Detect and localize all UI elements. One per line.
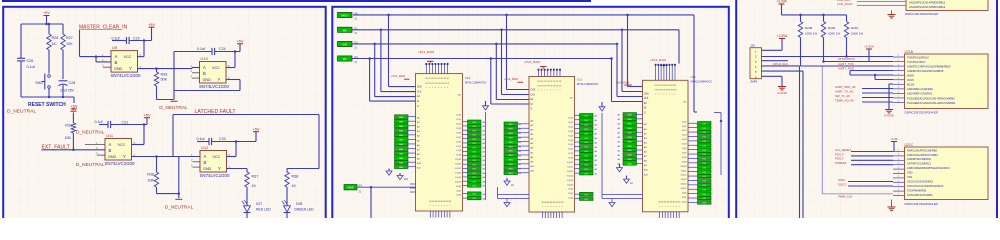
bus wire row 4 [352, 58, 612, 60]
svg-text:DQ8: DQ8 [457, 150, 462, 152]
svg-text:v: v [538, 90, 539, 92]
svg-text:v: v [672, 94, 673, 96]
svg-text:DQ12: DQ12 [681, 175, 687, 177]
svg-text:B: B [115, 60, 118, 65]
svg-text:U21B: U21B [905, 50, 914, 54]
svg-text:SW1: SW1 [35, 81, 43, 85]
svg-text:DQ11: DQ11 [455, 164, 461, 166]
svg-text:v: v [433, 205, 434, 207]
svg-text:AN0/VREF+/CN2/RA0: AN0/VREF+/CN2/RA0 [907, 87, 933, 91]
op-gate U10 SN74LVC1G00 [200, 62, 227, 84]
svg-text:DQ15: DQ15 [567, 184, 573, 186]
wire R208 to RB15 row [800, 38, 802, 67]
port MA1X (green) [338, 12, 353, 17]
svg-text:DQ2: DQ2 [457, 195, 462, 197]
wire port5 row [357, 186, 416, 188]
bus drop to U22 pin [626, 14, 629, 17]
svg-text:AN7/RP17/CN9/RC1: AN7/RP17/CN9/RC1 [907, 162, 932, 166]
svg-text:DQ10: DQ10 [455, 159, 461, 161]
svg-text:C31: C31 [122, 120, 129, 124]
svg-text:DQ7: DQ7 [457, 146, 462, 148]
svg-text:v: v [673, 206, 674, 208]
resistor R26 1K [48, 24, 50, 34]
wire U10 VCC riser [226, 67, 235, 69]
svg-text:DQ0: DQ0 [457, 186, 462, 188]
svg-text:DQ9: DQ9 [569, 158, 574, 160]
svg-text:DQ0: DQ0 [682, 193, 687, 195]
connector column left of U22 (green) [623, 113, 637, 117]
svg-text:D_NEUTRAL: D_NEUTRAL [76, 129, 105, 135]
svg-text:MCLR: MCLR [907, 83, 914, 87]
resistor R28 50K [156, 69, 158, 72]
svg-text:v: v [435, 87, 436, 89]
svg-text:v: v [661, 94, 662, 96]
LED D27 RED LED [244, 206, 251, 212]
connector column left of U19 (green) [395, 115, 409, 119]
bus drop to U21 pin [505, 14, 508, 17]
svg-text:MWE: MWE [348, 187, 354, 190]
svg-text:C24: C24 [219, 47, 226, 51]
wire right edge of panel 2 [714, 112, 721, 114]
svg-text:G: G [644, 113, 646, 115]
svg-text:100K 1%: 100K 1% [851, 32, 864, 36]
svg-text:v: v [541, 90, 542, 92]
svg-text:+5V: +5V [148, 23, 155, 27]
wire R209 to RB14 row [823, 38, 825, 62]
svg-text:R37: R37 [252, 175, 259, 179]
ground above U19 right column [485, 101, 487, 106]
svg-text:v: v [449, 205, 450, 207]
svg-text:AN8/CVREF/RP18/PMA2/CN10/RC2: AN8/CVREF/RP18/PMA2/CN10/RC2 [907, 166, 950, 170]
svg-text:U11: U11 [106, 133, 114, 138]
svg-text:Y: Y [218, 77, 221, 82]
svg-text:D27: D27 [256, 202, 262, 206]
DRAM U19 MT4LC16M4A7 [416, 74, 463, 211]
svg-text:DQ15: DQ15 [681, 188, 687, 190]
svg-text:CKE: CKE [417, 87, 422, 89]
svg-text:C28: C28 [69, 81, 76, 85]
wire U12.Y to R37 [227, 168, 248, 170]
svg-text:R27: R27 [66, 36, 73, 40]
op-gate U11 SN74LVC1G00 [105, 139, 132, 161]
power +5V for U12 [255, 132, 257, 142]
svg-text:v: v [669, 94, 670, 96]
svg-text:PWM_CLK: PWM_CLK [838, 195, 852, 199]
svg-text:DQ15: DQ15 [455, 181, 461, 183]
svg-text:DQ8: DQ8 [569, 153, 574, 155]
U21B pin stubs [893, 56, 905, 58]
svg-text:+5V: +5V [70, 107, 77, 111]
svg-text:MA: MA [343, 58, 347, 61]
svg-text:DQ13: DQ13 [681, 179, 687, 181]
wire U10.B stub [192, 72, 200, 74]
ground A-GND below AVSS [885, 109, 893, 111]
bus drop to U19 pin [387, 14, 390, 17]
wire port5 drop [370, 187, 372, 218]
resistor R36 10K [156, 157, 158, 173]
svg-text:CKE: CKE [644, 93, 649, 95]
svg-text:v: v [556, 90, 557, 92]
svg-text:A/SPI_SDO_A0: A/SPI_SDO_A0 [835, 85, 856, 89]
junction [155, 155, 158, 158]
svg-text:DQ9: DQ9 [457, 155, 462, 157]
svg-text:AN0/RTCC/RP14/CN12/PMWB/RB14: AN0/RTCC/RP14/CN12/PMWB/RB14 [907, 64, 951, 68]
wires U19 to right column [463, 121, 468, 123]
svg-text:v: v [665, 206, 666, 208]
svg-text:VDD: VDD [907, 171, 913, 175]
wire to U21A pin RB12 [857, 1, 906, 3]
svg-text:DQ4: DQ4 [457, 132, 462, 134]
ground below left column [388, 169, 390, 172]
svg-text:A: A [109, 142, 112, 147]
resistor R31 10K [71, 123, 75, 133]
ground A-GND below J19 [778, 86, 786, 88]
svg-text:v: v [550, 90, 551, 92]
svg-text:SOSCI/RP4/CN1/RB4: SOSCI/RP4/CN1/RB4 [907, 193, 933, 197]
wire J19.6 to A-GND [762, 75, 783, 77]
vertical wire x174 [173, 52, 175, 100]
svg-text:DQ10: DQ10 [567, 162, 573, 164]
svg-text:DSPIC33FJ32GP204-EP: DSPIC33FJ32GP204-EP [905, 202, 939, 206]
wire RB14 row [824, 61, 894, 63]
ground below U21 left pins [506, 199, 508, 203]
sheet panel 3 (dsPIC MCU) [736, 0, 997, 222]
svg-text:v: v [544, 90, 545, 92]
wire U12.GND stub [193, 166, 201, 168]
svg-text:SN74LVC1G00: SN74LVC1G00 [199, 84, 229, 89]
svg-text:v: v [562, 206, 563, 208]
ground below U21 left column [506, 178, 508, 181]
sheet panel 1 (reset/fault logic) [3, 7, 326, 222]
connector column right of U19 (green) [468, 120, 482, 123]
svg-text:MT4LC16M4A7DJ: MT4LC16M4A7DJ [691, 80, 713, 84]
wire U11.A stub [85, 144, 105, 146]
svg-text:0.1uf: 0.1uf [197, 47, 205, 51]
svg-text:+5V2_RAM: +5V2_RAM [504, 77, 519, 81]
svg-text:v: v [670, 206, 671, 208]
svg-text:v: v [553, 206, 554, 208]
junction [822, 14, 825, 17]
svg-text:v: v [438, 205, 439, 207]
svg-text:0.1uf: 0.1uf [27, 65, 36, 69]
svg-text:VCC: VCC [124, 55, 132, 59]
svg-text:DQ8: DQ8 [682, 157, 687, 159]
svg-text:DQ1: DQ1 [569, 193, 574, 195]
svg-text:Y: Y [129, 66, 132, 71]
wire U12 VCC riser [227, 156, 237, 158]
wire down to PWM row [821, 66, 823, 194]
svg-text:1K: 1K [292, 184, 297, 188]
wire U12.A from latched net [173, 156, 200, 158]
wire U11.Y out [132, 156, 179, 158]
svg-text:v: v [547, 90, 548, 92]
op-gate U9 SN74LVC1G00 [111, 51, 138, 73]
svg-text:Y: Y [123, 154, 126, 159]
capacitor C24 0.1uf [174, 51, 212, 53]
net wire LATCHED_FAULT [173, 114, 319, 116]
bus drop to U22 pin [616, 43, 619, 46]
wire U9.Y output [138, 68, 193, 70]
svg-text:DQ0: DQ0 [569, 118, 574, 120]
svg-text:U10: U10 [201, 56, 209, 61]
extra green blocks lower right of U19 [468, 192, 482, 195]
power port D_NEUTRAL bottom [175, 198, 182, 200]
svg-text:DQ3: DQ3 [569, 131, 574, 133]
svg-text:U12: U12 [201, 145, 209, 150]
svg-text:v: v [435, 205, 436, 207]
svg-text:DQ3: DQ3 [457, 128, 462, 130]
port 5 (green) [344, 185, 357, 190]
bottom border of sheet above [2, 0, 591, 2]
capacitor C23 0.1uf [112, 40, 127, 42]
svg-text:+5V: +5V [237, 39, 244, 43]
svg-text:1K: 1K [52, 42, 57, 46]
bus wire row2 far drop [678, 30, 680, 64]
svg-text:v: v [447, 87, 448, 89]
svg-text:A: A [115, 54, 118, 59]
svg-text:PGC1*: PGC1* [835, 152, 845, 156]
svg-text:SN74LVC1G00: SN74LVC1G00 [105, 161, 135, 166]
bus drop to U19 pin [373, 43, 376, 46]
svg-text:Y: Y [218, 166, 221, 171]
svg-text:DQ0: DQ0 [682, 121, 687, 123]
svg-text:RED LED: RED LED [256, 207, 271, 211]
svg-text:+5V1_RAM: +5V1_RAM [391, 74, 406, 78]
svg-text:+3.3VA: +3.3VA [776, 0, 787, 4]
svg-text:v: v [668, 206, 669, 208]
svg-text:0.1uf: 0.1uf [95, 120, 103, 124]
wire J19.4 CPLD_CLK down [762, 65, 800, 67]
sheet panel 2 (memory array) [332, 7, 729, 222]
wire AVDD row [850, 70, 893, 72]
wires green col to U21 [518, 123, 530, 125]
svg-text:AVSS: AVSS [907, 78, 914, 82]
wires U22 to right column [688, 122, 698, 124]
capacitor C31 0.1uf [99, 124, 108, 126]
bus wire row1 far drop [693, 15, 695, 112]
svg-text:CLK: CLK [644, 98, 649, 100]
ground below U21C [891, 200, 893, 207]
svg-text:+3.3VA: +3.3VA [777, 34, 788, 38]
wire U9 VCC riser [138, 56, 145, 58]
U21 top pin stubs [538, 69, 540, 77]
svg-text:DQ11: DQ11 [567, 166, 573, 168]
svg-text:XPRES1: XPRES1 [835, 161, 847, 165]
svg-text:R36: R36 [147, 173, 154, 177]
junction [48, 96, 51, 99]
svg-text:OSCI/CLKI/CN30/RA2: OSCI/CLKI/CN30/RA2 [907, 179, 934, 183]
svg-text:A: A [203, 65, 206, 70]
svg-text:SN74LVC1G00: SN74LVC1G00 [111, 73, 141, 78]
svg-text:U19: U19 [465, 76, 471, 80]
svg-text:SN74LVC1G00: SN74LVC1G00 [200, 173, 230, 178]
svg-text:C33: C33 [219, 137, 226, 141]
ground above U21 right column [601, 102, 603, 107]
svg-text:v: v [659, 206, 660, 208]
wire J19.5 down [762, 70, 804, 72]
svg-text:B: B [204, 160, 207, 165]
svg-text:DSPIC33FJ32GP204-EP: DSPIC33FJ32GP204-EP [905, 111, 939, 115]
svg-text:MT4LC16M4A7DJ: MT4LC16M4A7DJ [577, 82, 599, 86]
svg-text:v: v [550, 206, 551, 208]
wire R28 to port [157, 99, 175, 101]
svg-text:v: v [545, 206, 546, 208]
svg-text:A-GND: A-GND [777, 91, 788, 95]
svg-text:+5V3_RAM: +5V3_RAM [616, 80, 631, 84]
svg-text:v: v [441, 87, 442, 89]
svg-text:DQ5: DQ5 [569, 140, 574, 142]
svg-text:PGC1/EMUC1/AN3/C2IN+/RP1/CN5/R: PGC1/EMUC1/AN3/C2IN+/RP1/CN5/RB1 [907, 101, 956, 105]
svg-text:C23: C23 [133, 36, 140, 40]
power +5V for U9 [151, 28, 153, 41]
junction [799, 14, 802, 17]
svg-text:TMS/PGA10/RA10: TMS/PGA10/RA10 [907, 55, 929, 59]
junction [48, 23, 51, 26]
connector column left of U21 (green) [504, 122, 518, 126]
op-gate U12 SN74LVC1G00 [200, 151, 227, 173]
svg-text:U21: U21 [577, 78, 583, 82]
svg-text:NC: NC [570, 98, 574, 100]
wire resistor rail [782, 14, 847, 16]
svg-text:AN6/RP16/CN8/RC0: AN6/RP16/CN8/RC0 [907, 157, 932, 161]
svg-text:AN13/RP13/CN13/PMD1/RB13: AN13/RP13/CN13/PMD1/RB13 [909, 5, 946, 9]
svg-text:OSCI: OSCI [838, 178, 845, 182]
wire U11.GND stub [97, 154, 105, 156]
ground below U22 left pins [611, 199, 613, 203]
bus drop to U22 pin [621, 29, 624, 32]
connector column right of U22 (green) [698, 122, 712, 126]
svg-text:v: v [559, 206, 560, 208]
svg-text:0.1uf: 0.1uf [197, 137, 205, 141]
svg-text:DQ6: DQ6 [682, 148, 687, 150]
svg-text:UART_TX_A0: UART_TX_A0 [835, 89, 854, 93]
svg-text:DSPIC33FJ32GP204-EP: DSPIC33FJ32GP204-EP [905, 12, 939, 16]
svg-text:SW_T1_A0: SW_T1_A0 [835, 94, 850, 98]
power +5V top [46, 16, 48, 25]
svg-text:100K 1%: 100K 1% [828, 32, 841, 36]
svg-text:/CC_RESET: /CC_RESET [835, 148, 851, 152]
wire U10.Y down [226, 79, 240, 81]
bus drop to U22 pin [610, 57, 613, 60]
svg-text:G: G [417, 106, 419, 108]
svg-text:DQ7: DQ7 [569, 149, 574, 151]
wires green col to U19 [408, 116, 416, 118]
svg-text:R26: R26 [52, 36, 59, 40]
svg-text:PGD1/EMUD1/AN2/C2IN-/RP0/CN4/R: PGD1/EMUD1/AN2/C2IN-/RP0/CN4/RB0 [907, 96, 955, 100]
svg-text:AN9/RP15/CN11/PMCS1/RB15: AN9/RP15/CN11/PMCS1/RB15 [907, 69, 944, 73]
svg-text:10K: 10K [147, 179, 154, 183]
resistor R210 100K 1% [846, 15, 848, 22]
bus wire row 2 [352, 29, 679, 31]
svg-text:+5V1_RAM: +5V1_RAM [418, 50, 434, 54]
wire C26 branch [20, 24, 22, 58]
svg-text:v: v [438, 87, 439, 89]
svg-text:R208: R208 [805, 26, 813, 30]
wire J19.3 [762, 60, 789, 62]
junction [62, 96, 65, 99]
resistor R208 100K 1% [800, 15, 802, 22]
svg-text:R210: R210 [851, 26, 859, 30]
svg-text:PGD1*: PGD1* [835, 157, 845, 161]
wire R36 bottom to port [157, 193, 179, 195]
svg-text:DQ11: DQ11 [681, 170, 687, 172]
U21 bottom pin stubs [542, 212, 544, 218]
svg-text:+5V: +5V [43, 11, 50, 15]
extra green blocks lower right of U21 [580, 192, 594, 196]
svg-text:UART_TXD: UART_TXD [838, 62, 855, 66]
capacitor C33 0.1uf [197, 141, 209, 143]
svg-text:NC: NC [683, 101, 687, 103]
DRAM U21 MT4LC16M4A7 [529, 77, 575, 213]
net wire PWM_CLK [822, 193, 893, 195]
svg-text:GND: GND [114, 67, 123, 71]
svg-text:v: v [674, 94, 675, 96]
wire latched to R38 [287, 168, 319, 170]
wire top rail [21, 23, 63, 25]
svg-text:10K: 10K [66, 42, 73, 46]
wire U10.GND stub [192, 77, 200, 79]
svg-text:DQ6: DQ6 [569, 144, 574, 146]
junction [45, 23, 48, 26]
U19 bottom pin stubs [429, 211, 431, 218]
svg-text:OSCO: OSCO [838, 182, 847, 186]
svg-text:AN5/C1IN+/RP3/CN7/RB3: AN5/C1IN+/RP3/CN7/RB3 [907, 153, 938, 157]
svg-text:R38: R38 [292, 175, 299, 179]
ground below U21A [891, 11, 893, 15]
junction [874, 74, 877, 77]
svg-text:DQ14: DQ14 [455, 177, 461, 179]
svg-text:JMP6: JMP6 [750, 80, 758, 84]
svg-text:v: v [444, 87, 445, 89]
svg-text:CKE: CKE [531, 90, 536, 92]
LED D28 GREEN LED [284, 206, 291, 212]
svg-text:v: v [556, 206, 557, 208]
svg-text:TDO/PMA8/RA8: TDO/PMA8/RA8 [907, 188, 927, 192]
svg-text:U9: U9 [112, 45, 118, 50]
svg-text:+5V: +5V [253, 127, 260, 131]
svg-text:DQ2: DQ2 [569, 126, 574, 128]
svg-text:v: v [548, 206, 549, 208]
svg-text:CLK: CLK [531, 94, 536, 96]
svg-text:DQ10: DQ10 [681, 166, 687, 168]
svg-text:v: v [441, 205, 442, 207]
svg-text:DQ13: DQ13 [455, 172, 461, 174]
svg-text:LCD_DCLK: LCD_DCLK [837, 2, 853, 6]
svg-text:DQ1: DQ1 [682, 126, 687, 128]
U22 bottom pin stubs [659, 212, 661, 218]
svg-text:ATTENTION: ATTENTION [838, 57, 855, 61]
wire U9.GND stub [103, 66, 111, 68]
svg-text:DQ1: DQ1 [682, 197, 687, 199]
resistor R38 1K [285, 172, 289, 187]
wire R210 to TMS row [846, 38, 848, 57]
svg-text:D_NEUTRAL: D_NEUTRAL [159, 105, 188, 111]
svg-text:VSS: VSS [907, 175, 912, 179]
svg-text:AN4/C1IN-/RP2/CN6/RB2: AN4/C1IN-/RP2/CN6/RB2 [907, 148, 938, 152]
capacitor C28 22uf 25V [59, 80, 68, 82]
port DA0 (green) [338, 41, 353, 46]
svg-text:C26: C26 [27, 59, 34, 63]
svg-text:DQ6: DQ6 [457, 141, 462, 143]
svg-text:DQ12: DQ12 [455, 168, 461, 170]
svg-text:22uf 25V: 22uf 25V [60, 89, 75, 93]
svg-text:GND: GND [203, 167, 212, 171]
wire EXT_FAULT to U11.B [42, 149, 106, 151]
svg-text:v: v [666, 94, 667, 96]
svg-text:VCC: VCC [212, 66, 220, 70]
svg-text:DQ4: DQ4 [569, 135, 574, 137]
svg-text:10K: 10K [64, 136, 71, 140]
